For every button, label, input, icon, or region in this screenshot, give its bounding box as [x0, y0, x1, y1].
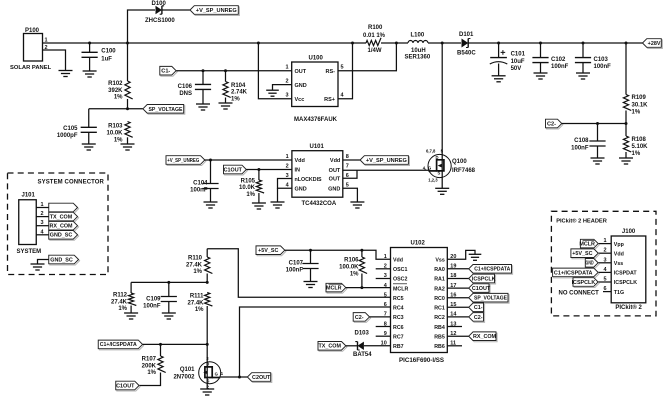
svg-text:S: S: [438, 171, 441, 176]
svg-text:100nF: 100nF: [594, 64, 612, 70]
connector J100: [611, 236, 646, 303]
flag MCLR: [326, 283, 347, 293]
svg-text:C2-: C2-: [547, 122, 556, 128]
svg-text:C1+/ICSPDATA: C1+/ICSPDATA: [554, 270, 593, 276]
flag SP_VOLTAGE: [143, 105, 185, 115]
wire C103 bottom stub: [582, 63, 584, 73]
wire MCLR to U102 pin4: [346, 287, 391, 289]
svg-text:R105: R105: [241, 178, 256, 184]
svg-text:RB6: RB6: [434, 344, 445, 350]
svg-text:D101: D101: [459, 32, 474, 38]
wire R102 top stub: [127, 43, 129, 81]
svg-text:5.10K: 5.10K: [632, 144, 649, 150]
flag C1OUT U101: [224, 165, 248, 175]
svg-text:1%: 1%: [231, 96, 240, 102]
svg-text:J100: J100: [622, 229, 636, 235]
wire J101 pin3: [36, 225, 49, 227]
junction R110 R111: [206, 281, 209, 284]
ground C102: [534, 73, 548, 79]
wire D100 to flag: [162, 9, 190, 11]
svg-text:IN: IN: [295, 168, 301, 174]
wire C1OUT to U101 pin2: [246, 169, 292, 171]
svg-text:C100: C100: [101, 49, 116, 55]
ground C101: [492, 76, 506, 82]
wire J100 pin1: [598, 243, 611, 245]
svg-text:1%: 1%: [632, 109, 641, 115]
flag +V_SP_UNREG U101: [166, 156, 206, 166]
svg-text:S: S: [207, 379, 210, 384]
svg-text:C1-: C1-: [474, 305, 483, 311]
svg-text:GND_SC: GND_SC: [50, 257, 73, 263]
junction R109 on rail: [625, 42, 628, 45]
svg-text:GND: GND: [295, 187, 307, 193]
flag +5V_SC: [256, 246, 286, 256]
svg-text:ZHCS1000: ZHCS1000: [145, 18, 175, 24]
ground R103: [121, 144, 135, 150]
wire C102 bottom stub: [540, 63, 542, 73]
wire J100 pin4: [598, 271, 611, 273]
svg-text:D103: D103: [355, 331, 370, 337]
svg-text:392K: 392K: [108, 88, 123, 94]
wire C2- to U102 pin7: [370, 316, 391, 318]
wire C103 top stub: [582, 43, 584, 58]
svg-text:RX_COM: RX_COM: [473, 334, 497, 340]
wire U102 pin19: [447, 268, 469, 270]
svg-text:R109: R109: [632, 95, 647, 101]
wire U101 gnd stub down: [277, 188, 279, 202]
svg-text:U101: U101: [310, 144, 325, 150]
capacitor C103: [575, 58, 591, 63]
wire P100 pin2 to ground: [43, 50, 66, 71]
svg-text:1%: 1%: [118, 306, 127, 312]
flag ICSPCLK at RA1: [469, 274, 496, 284]
svg-text:MCLR: MCLR: [393, 286, 408, 292]
wire U102 pin15: [447, 306, 469, 308]
svg-text:RB4: RB4: [434, 325, 445, 331]
wire U102 pin9 RC7 stub: [376, 335, 391, 337]
flag TX_COM J101: [49, 212, 79, 222]
wire +V_SP_UNREG to U101 pin1: [205, 159, 292, 161]
svg-text:2: 2: [285, 79, 288, 85]
svg-text:RC1: RC1: [434, 306, 445, 312]
svg-text:1,2,3: 1,2,3: [428, 177, 438, 182]
wire C106 top stub: [202, 71, 204, 85]
ground GND_SC: [31, 264, 45, 270]
svg-text:SER1360: SER1360: [405, 55, 431, 61]
svg-text:R112: R112: [113, 293, 128, 299]
wire R108 bottom stub: [625, 152, 627, 158]
svg-text:C2-: C2-: [474, 315, 483, 321]
wire U102 pin20 to ground: [447, 250, 475, 259]
ground U101 pins3-4: [271, 202, 285, 208]
svg-text:4,: 4,: [423, 165, 427, 170]
wire Q101 drain and source: [206, 344, 208, 389]
wire C108 bottom stub: [597, 146, 599, 158]
transistor Q100 body: [428, 154, 451, 177]
svg-text:1%: 1%: [350, 271, 359, 277]
wire RC5 net: [207, 249, 390, 298]
svg-text:nLOCKDIS: nLOCKDIS: [295, 177, 323, 183]
svg-text:2.74K: 2.74K: [231, 90, 248, 96]
svg-text:PICkit® 2: PICkit® 2: [615, 304, 642, 311]
svg-text:G: G: [215, 372, 218, 377]
svg-text:1%: 1%: [632, 151, 641, 157]
wire R103 bottom stub: [127, 137, 129, 144]
svg-text:GND_SC: GND_SC: [50, 233, 73, 239]
svg-text:10.0K: 10.0K: [239, 185, 256, 191]
wire R106 bottom stub: [361, 274, 363, 288]
svg-text:D100: D100: [152, 1, 167, 7]
svg-text:L100: L100: [411, 33, 425, 39]
resistor R108: [623, 136, 631, 152]
svg-text:C106: C106: [178, 84, 193, 90]
junction SP_VOLTAGE node: [126, 107, 129, 110]
junction RC4 gate: [238, 376, 241, 379]
dashed box PICkit 2 HEADER: [551, 211, 656, 316]
svg-text:MAX4376FAUK: MAX4376FAUK: [294, 117, 338, 123]
svg-text:R108: R108: [632, 137, 647, 143]
overline MCLR flag: [329, 283, 343, 285]
ground C103: [576, 73, 590, 79]
connector P100: [24, 34, 43, 62]
ground C104: [204, 202, 218, 208]
flag blank J101 pin1: [49, 203, 79, 213]
wire U102 pin11 RB6 stub: [447, 345, 462, 347]
wire bias node horizontal: [131, 281, 207, 283]
svg-text:Vss: Vss: [614, 261, 623, 267]
flag C2OUT: [247, 373, 271, 383]
svg-text:RS+: RS+: [324, 97, 335, 103]
wire C109 top stub: [168, 282, 170, 296]
svg-text:+V_SP_UNREG: +V_SP_UNREG: [366, 158, 407, 164]
wire RC4 net: [240, 307, 391, 377]
flag GND J100: [585, 259, 599, 269]
flag GND_SC lower: [49, 255, 80, 265]
capacitor C104: [202, 184, 218, 189]
flag C1OUT at RA2: [469, 284, 491, 294]
svg-text:U102: U102: [411, 241, 426, 247]
op-amp U100 MAX4376FAUK body: [292, 62, 338, 107]
svg-text:50V: 50V: [511, 66, 522, 72]
junction C100 on main rail: [88, 42, 91, 45]
svg-text:C102: C102: [551, 57, 566, 63]
flag MCLR J100: [579, 239, 599, 249]
wire R105 bottom stub: [258, 193, 260, 203]
flag C1OUT bottom: [116, 381, 140, 391]
svg-text:1%: 1%: [114, 95, 123, 101]
ground C107: [304, 282, 318, 288]
wire U101 pin7 to Q100 gate: [343, 169, 429, 171]
wire C102 top stub: [540, 43, 542, 58]
gate driver U101 TC4432COA body: [292, 151, 343, 198]
svg-text:1%: 1%: [193, 269, 202, 275]
wire C101 bottom stub: [498, 64, 500, 76]
junction Q100 drain on rail: [441, 42, 444, 45]
svg-text:U100: U100: [309, 55, 324, 61]
svg-text:200K: 200K: [142, 363, 157, 369]
svg-text:2: 2: [286, 164, 289, 170]
svg-text:6,7,8: 6,7,8: [426, 149, 436, 154]
svg-text:C1OUT: C1OUT: [472, 286, 491, 292]
flag SP_VOLTAGE at RC0: [469, 293, 509, 303]
svg-text:RC6: RC6: [393, 325, 404, 331]
wire U102 pin14: [447, 316, 469, 318]
svg-text:C101: C101: [511, 52, 526, 58]
svg-text:R111: R111: [190, 294, 204, 300]
wire U101 pin5 to ground: [343, 188, 358, 202]
svg-text:30.1K: 30.1K: [632, 102, 649, 108]
ground C109: [162, 313, 176, 319]
wire J100 pin3: [598, 262, 611, 264]
ground U100 pin2: [266, 90, 279, 96]
resistor R104: [223, 82, 231, 98]
capacitor C101 polarized: [490, 50, 508, 64]
ground P100 pin2: [59, 71, 73, 77]
svg-text:RC0: RC0: [434, 296, 445, 302]
capacitor C107: [302, 264, 318, 269]
svg-text:+5V_SC: +5V_SC: [572, 251, 592, 257]
svg-text:ICSPCLK: ICSPCLK: [572, 280, 596, 286]
resistor R102: [125, 81, 133, 99]
wire Q100 drain and source: [441, 43, 443, 188]
svg-text:SOLAR PANEL: SOLAR PANEL: [10, 65, 52, 71]
svg-text:C2OUT: C2OUT: [252, 375, 271, 381]
svg-text:NO CONNECT: NO CONNECT: [559, 290, 600, 296]
svg-text:+V_SP_UNREG: +V_SP_UNREG: [196, 8, 237, 14]
wire C1+ICSPDATA net: [143, 343, 208, 345]
flag +V_SP_UNREG top: [190, 6, 239, 16]
flag ICSPCLK J100: [572, 278, 600, 288]
svg-text:PICkit® 2 HEADER: PICkit® 2 HEADER: [556, 218, 607, 225]
svg-text:1: 1: [384, 254, 387, 260]
junction C109 top: [167, 281, 170, 284]
flag RX_COM J101: [49, 221, 79, 231]
junction RS+ on rail: [351, 42, 354, 45]
svg-text:RB7: RB7: [393, 344, 404, 350]
svg-text:10uF: 10uF: [511, 59, 525, 65]
svg-text:OUT: OUT: [295, 69, 307, 75]
svg-text:TC4432COA: TC4432COA: [302, 201, 337, 207]
svg-text:5: 5: [341, 65, 344, 71]
svg-text:R103: R103: [108, 124, 123, 130]
overline MCLR J100 flag: [583, 239, 595, 241]
junction MCLR node: [360, 286, 363, 289]
wire U101 pin6 tie: [343, 170, 357, 178]
wire R110 top stub: [206, 249, 208, 257]
svg-text:GND: GND: [328, 187, 340, 193]
overline MCLR pin name U102: [393, 283, 407, 285]
junction R107 top: [159, 343, 162, 346]
svg-text:Q100: Q100: [452, 159, 467, 165]
svg-text:C105: C105: [63, 126, 78, 132]
ground C105: [82, 144, 96, 150]
svg-text:1/4W: 1/4W: [368, 48, 382, 54]
transistor Q101 body: [199, 362, 221, 384]
svg-text:1: 1: [285, 65, 288, 71]
wire U102 pin16: [447, 297, 469, 299]
junction C106: [202, 69, 205, 72]
svg-text:RB5: RB5: [434, 334, 445, 340]
wire U102 pin12: [447, 335, 469, 337]
junction C108: [596, 122, 599, 125]
wire J101 pin4: [36, 234, 49, 236]
ground C106: [196, 104, 210, 110]
svg-text:27.4K: 27.4K: [187, 300, 204, 306]
svg-text:27.4K: 27.4K: [186, 263, 203, 269]
wire +5V_SC to U102 pin1: [285, 250, 391, 259]
svg-text:C109: C109: [146, 297, 161, 303]
resistor R110: [205, 257, 213, 274]
diode D103: [355, 342, 364, 350]
wire J100 pin6 stub: [603, 291, 611, 293]
wire Q101 gate to C2OUT: [220, 376, 247, 378]
flag +5V_SC J100: [571, 249, 599, 259]
svg-text:5: 5: [384, 292, 387, 298]
wire C2- node: [562, 123, 626, 125]
wire TX_COM to D103: [346, 345, 357, 347]
svg-text:R106: R106: [344, 258, 359, 264]
capacitor C109: [161, 297, 177, 302]
ground C100: [83, 71, 97, 77]
svg-text:Vcc: Vcc: [295, 97, 305, 103]
wire RS- sense: [338, 43, 396, 71]
flag C1+/ICSPDATA at RA0: [469, 265, 513, 275]
diode D101: [462, 39, 471, 48]
svg-text:1: 1: [41, 202, 44, 208]
wire C107 bottom stub: [310, 269, 312, 282]
svg-text:1%: 1%: [246, 192, 255, 198]
svg-text:1%: 1%: [114, 137, 123, 143]
svg-text:SP_VOLTAGE: SP_VOLTAGE: [474, 296, 507, 302]
svg-text:ICSPCLK: ICSPCLK: [472, 276, 496, 282]
svg-text:MCLR: MCLR: [579, 242, 595, 248]
svg-text:ICSPCLK: ICSPCLK: [614, 280, 637, 286]
svg-text:IRF7468: IRF7468: [452, 168, 476, 174]
junction R106 top: [360, 249, 363, 252]
junction D100 branch: [126, 42, 129, 45]
svg-text:R102: R102: [108, 81, 123, 87]
wire C108 top stub: [597, 124, 599, 142]
svg-text:100nF: 100nF: [143, 303, 161, 309]
diode D100: [156, 6, 165, 14]
resistor R105: [256, 180, 264, 193]
svg-text:1%: 1%: [195, 307, 204, 313]
wire J100 pin5: [598, 281, 611, 283]
svg-text:R107: R107: [142, 357, 157, 363]
svg-text:TX_COM: TX_COM: [319, 344, 342, 350]
microcontroller U102 body: [391, 248, 448, 353]
svg-text:RX_COM: RX_COM: [49, 224, 73, 230]
svg-text:Vdd: Vdd: [393, 257, 403, 263]
wire U102 pin3 OSC2 stub: [376, 278, 391, 280]
svg-text:10uH: 10uH: [411, 48, 426, 54]
junction C103: [582, 42, 585, 45]
svg-text:MCLR: MCLR: [326, 286, 342, 292]
svg-text:100.0K: 100.0K: [339, 265, 359, 271]
svg-text:D: D: [436, 155, 439, 160]
flag C2- at RC3: [353, 313, 370, 323]
wire D101 to +28V: [468, 42, 643, 44]
flag C2- right area: [546, 119, 563, 129]
svg-text:J101: J101: [22, 193, 36, 199]
svg-text:100nF: 100nF: [551, 64, 569, 70]
svg-text:OUT: OUT: [329, 168, 341, 174]
wire Vcc feed U100 pin3: [258, 43, 291, 99]
wire U102 pin17: [447, 287, 469, 289]
flag C1- at RC1: [469, 303, 485, 313]
flag RX_COM at RB5: [469, 332, 497, 342]
capacitor C106: [195, 84, 211, 89]
svg-text:G: G: [428, 165, 431, 170]
ground R104: [219, 103, 233, 109]
wire U102 pin18: [447, 278, 469, 280]
svg-text:OUT: OUT: [329, 177, 341, 183]
wire C105 bottom stub: [88, 132, 90, 144]
wire C106 bottom stub: [202, 89, 204, 104]
wire R100 to L100: [381, 42, 408, 44]
svg-text:DNS: DNS: [179, 91, 192, 97]
svg-text:+28V: +28V: [648, 41, 661, 47]
svg-text:R100: R100: [368, 25, 383, 31]
svg-text:Vdd: Vdd: [614, 251, 624, 257]
flag +28V: [643, 39, 663, 49]
junction C104: [209, 159, 212, 162]
ground U102 pin20: [469, 254, 482, 260]
resistor R106: [359, 257, 367, 274]
junction C101: [497, 42, 500, 45]
svg-text:3: 3: [41, 220, 44, 226]
svg-text:2N7002: 2N7002: [173, 375, 195, 381]
ground R108: [619, 158, 633, 164]
svg-text:7: 7: [346, 164, 349, 170]
svg-text:R110: R110: [188, 256, 203, 262]
wire C107 top stub: [310, 250, 312, 263]
svg-text:100nF: 100nF: [286, 267, 304, 273]
wire J101 pin2: [36, 216, 49, 218]
ground Q100 source: [435, 188, 449, 194]
wire R104 bottom stub: [225, 98, 227, 104]
svg-text:T1G: T1G: [614, 290, 624, 296]
svg-text:RC2: RC2: [434, 315, 445, 321]
wire R110 bottom stub: [206, 274, 208, 283]
svg-text:R104: R104: [231, 83, 246, 89]
wire RS+ sense: [338, 43, 353, 99]
capacitor C105: [81, 127, 97, 132]
svg-text:RC7: RC7: [393, 334, 404, 340]
capacitor C102: [532, 58, 548, 63]
wire C109 bottom stub: [168, 302, 170, 314]
junction R104: [224, 69, 227, 72]
wire U101 pin3 pin4 tie: [278, 179, 292, 189]
flag C2- at RC2: [469, 313, 485, 323]
wire R107 top stub: [160, 344, 162, 356]
svg-text:Q101: Q101: [180, 367, 195, 373]
svg-text:100nF: 100nF: [571, 145, 589, 151]
svg-text:C1OUT: C1OUT: [224, 167, 243, 173]
ground R105: [252, 203, 266, 209]
ground C108: [591, 158, 605, 164]
svg-text:SYSTEM CONNECTOR: SYSTEM CONNECTOR: [38, 180, 105, 186]
wire R105 top stub: [258, 170, 260, 181]
wire R104 top stub: [225, 71, 227, 82]
wire GND_SC to ground: [38, 260, 49, 265]
svg-text:OSC2: OSC2: [393, 277, 407, 283]
wire U100 pin2 to ground hook: [273, 85, 292, 91]
wire R112 bottom stub: [130, 306, 132, 314]
svg-text:RS-: RS-: [326, 69, 336, 75]
svg-text:C103: C103: [594, 57, 609, 63]
svg-text:RA0: RA0: [434, 267, 445, 273]
